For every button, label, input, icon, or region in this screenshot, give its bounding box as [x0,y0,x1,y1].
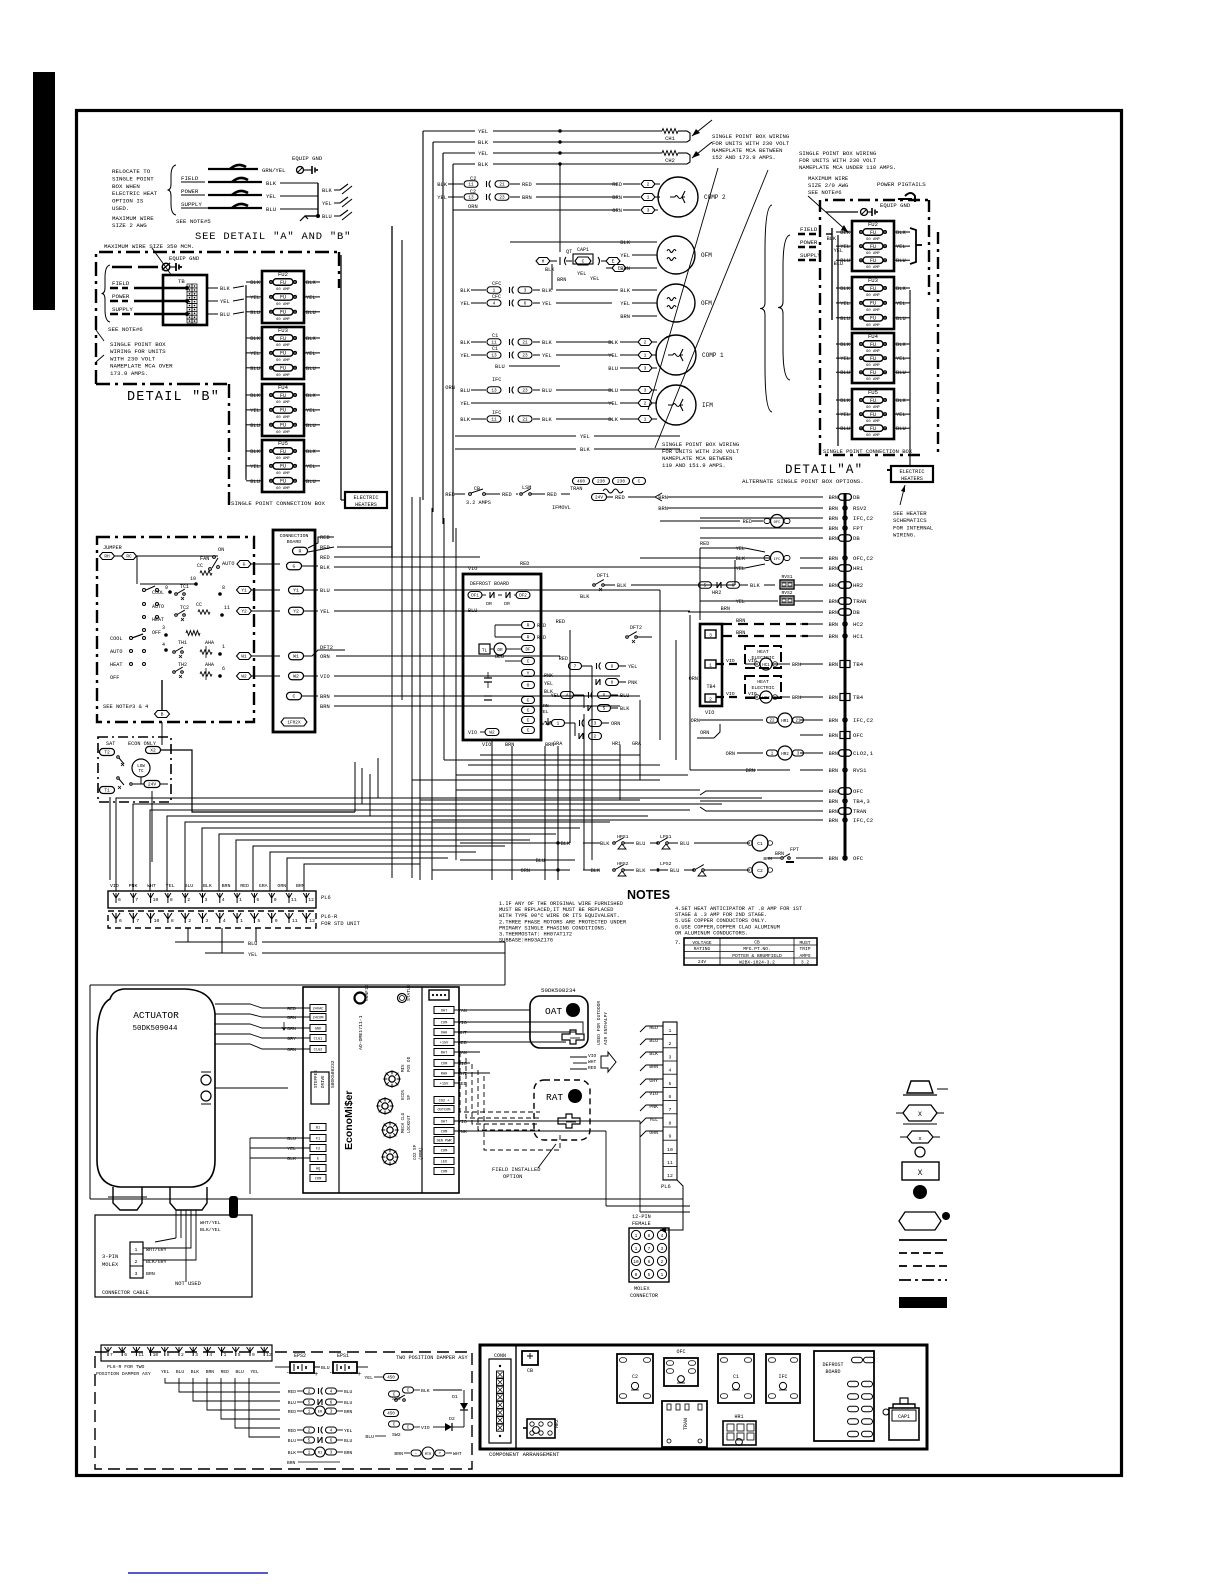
svg-text:SP: SP [408,1094,412,1100]
svg-text:RED: RED [700,541,709,547]
svg-text:CO2 SP: CO2 SP [414,1144,418,1160]
svg-text:BLK: BLK [266,180,277,187]
bus terminal DB y497 [839,494,852,501]
svg-text:RED: RED [221,1369,230,1375]
svg-text:LPS2: LPS2 [660,861,672,867]
svg-text:D2: D2 [449,1416,455,1422]
svg-text:4: 4 [222,897,225,903]
legend rect with X [902,1162,939,1180]
svg-text:AMPS: AMPS [799,953,810,959]
detail B dashed enclosure [96,252,339,384]
svg-text:W1: W1 [241,655,247,660]
svg-text:11: 11 [468,183,474,188]
svg-text:9: 9 [669,1134,672,1140]
vertical riser group A [391,557,393,878]
svg-text:VIO: VIO [421,1425,430,1431]
QT CAP1 row [536,258,550,265]
svg-text:5: 5 [257,918,260,924]
svg-text:NOT USED: NOT USED [175,1281,201,1287]
svg-text:COM: COM [441,1131,447,1135]
svg-text:Y2: Y2 [293,609,299,615]
svg-text:YEL: YEL [840,244,850,250]
svg-text:BRN: BRN [658,506,668,512]
svg-text:RED: RED [547,492,557,498]
svg-text:+: + [314,1371,318,1379]
svg-text:VIO: VIO [588,1053,597,1059]
svg-text:9: 9 [252,1352,255,1358]
svg-text:BLU: BLU [248,941,257,947]
circle IFC [771,552,784,565]
svg-text:BLU: BLU [250,310,260,316]
svg-text:BRN: BRN [829,818,838,824]
svg-text:VIO: VIO [748,658,757,664]
fuse block FU3 left [262,327,304,379]
svg-text:MFG.PT.NO.: MFG.PT.NO. [743,946,771,952]
svg-text:RED: RED [743,519,752,525]
damper asy dashed box [95,1352,472,1469]
svg-text:4: 4 [162,642,165,648]
svg-text:STATUS: STATUS [406,984,412,1001]
svg-text:60 AMP: 60 AMP [276,431,290,435]
svg-text:BLK: BLK [306,280,316,286]
12pin to molex arrow [660,1180,683,1230]
svg-text:C1: C1 [733,1374,739,1380]
svg-text:SEE DETAIL "A" AND "B": SEE DETAIL "A" AND "B" [195,231,351,243]
svg-text:C1: C1 [492,346,498,352]
svg-text:FEMALE: FEMALE [632,1221,651,1227]
svg-text:21: 21 [499,183,505,188]
svg-text:SUPPLY: SUPPLY [800,252,821,259]
svg-text:+: + [439,1452,442,1457]
svg-text:ORN: ORN [287,1047,296,1053]
svg-text:1: 1 [669,1028,672,1034]
svg-text:24VAC: 24VAC [313,1008,324,1012]
svg-text:FU: FU [280,479,286,485]
svg-text:POS DD: POS DD [408,1056,412,1072]
svg-text:VIO: VIO [705,710,714,716]
svg-text:YEL: YEL [161,1369,170,1375]
svg-text:9: 9 [635,1273,638,1278]
wire power yel [208,194,262,196]
oat sensor wires [470,1009,530,1011]
dashed vertical bundle rat [484,1076,560,1150]
bus terminal IFC,C2 y720 [843,718,847,722]
svg-text:60 AMP: 60 AMP [276,487,290,491]
svg-text:COM: COM [441,1150,447,1154]
svg-text:BLK: BLK [561,841,571,847]
pl6 lower frame wires [90,984,505,986]
wires conn board to right [337,556,480,558]
svg-text:BLK: BLK [191,1369,200,1375]
svg-text:6: 6 [118,897,121,903]
svg-text:BLK: BLK [460,417,470,423]
svg-text:BLU: BLU [266,206,276,213]
wires into TB [134,287,187,290]
svg-text:OAH: OAH [441,1032,447,1036]
svg-text:SW2: SW2 [392,1432,401,1438]
svg-text:ORN: ORN [445,385,455,391]
svg-text:ORN: ORN [320,654,330,660]
svg-text:W1: W1 [293,654,299,660]
svg-text:NAMEPLATE MCA BETWEEN: NAMEPLATE MCA BETWEEN [662,455,733,462]
svg-text:HEAT: HEAT [757,679,769,685]
svg-text:RED: RED [288,1428,297,1434]
svg-text:3.THERMOSTAT: HH07AT172: 3.THERMOSTAT: HH07AT172 [499,932,572,938]
svg-text:2: 2 [644,401,647,407]
svg-text:3: 3 [647,208,650,214]
RAT sensor dashed box [534,1080,590,1140]
svg-text:POWER: POWER [181,188,199,195]
RH RC terminals [100,553,115,560]
svg-text:FIELD: FIELD [112,280,130,287]
svg-text:BLU: BLU [536,858,545,864]
collector bracket right A [910,228,916,264]
row HC1 dashed heavy [722,635,808,637]
svg-text:TB4,3: TB4,3 [853,798,870,805]
svg-text:450: 450 [387,1377,395,1381]
svg-text:4.SET HEAT ANTICIPATOR AT .8 A: 4.SET HEAT ANTICIPATOR AT .8 AMP FOR 1ST [675,906,802,912]
svg-text:OFC: OFC [774,521,782,525]
svg-text:BLK: BLK [542,288,552,294]
svg-text:ELECTRIC: ELECTRIC [900,469,925,475]
svg-text:YEL: YEL [460,401,470,407]
svg-text:C1: C1 [492,333,498,339]
svg-text:CAP1: CAP1 [577,247,589,253]
svg-text:1: 1 [647,195,650,201]
bus terminal OFC,C2 y558 [843,556,847,560]
fuse block FU4 left [262,384,304,436]
svg-text:YEL: YEL [620,301,630,307]
cascade wire 7 [219,834,556,891]
cascade wire 10 [270,852,476,891]
svg-text:BRN: BRN [146,1271,155,1277]
cascade wire 8 [236,840,530,891]
svg-text:POWER: POWER [112,293,130,300]
svg-text:RED: RED [612,182,622,188]
svg-text:12-PIN: 12-PIN [632,1214,651,1220]
svg-text:BRN: BRN [746,768,755,774]
svg-text:X: X [918,1111,922,1118]
arrows to single point note [692,120,712,136]
svg-text:1: 1 [557,722,560,727]
svg-text:RC: RC [126,555,132,560]
svg-text:FU2: FU2 [868,221,878,228]
sat outputs down [109,797,111,880]
svg-text:21: 21 [522,418,528,423]
Y1 hex t [237,587,252,594]
svg-text:BRN: BRN [287,1015,296,1021]
svg-text:YEL: YEL [628,664,637,670]
svg-text:1F02X: 1F02X [287,721,301,726]
svg-text:DETAIL "B": DETAIL "B" [127,390,220,405]
svg-text:BLU: BLU [542,388,552,394]
svg-text:CC: CC [196,602,202,608]
svg-text:MECH CLG: MECH CLG [402,1112,406,1133]
svg-text:FOR STD UNIT: FOR STD UNIT [321,921,361,927]
svg-text:60 AMP: 60 AMP [276,344,290,348]
wire from x2 right [161,750,355,812]
svg-text:T2: T2 [104,750,110,756]
svg-text:HR2: HR2 [853,582,863,589]
svg-text:DB: DB [853,494,860,501]
svg-text:230: 230 [597,480,605,485]
svg-text:BLK: BLK [620,706,630,712]
heat electric box 1 [745,646,781,668]
bus terminal CLO2,1 y753 [839,750,852,757]
svg-text:G: G [293,564,296,570]
svg-text:450: 450 [387,1413,395,1417]
svg-text:YEL: YEL [306,351,316,357]
long bottom wires economiser [90,1198,683,1200]
resistor CH2 [662,151,678,156]
svg-text:EQUIP GND: EQUIP GND [292,155,323,162]
svg-text:BRN: BRN [829,506,838,512]
svg-text:JUMPER: JUMPER [103,545,122,551]
wire field blk [208,181,262,183]
svg-text:BRN: BRN [829,583,838,589]
svg-text:WHT/YEL: WHT/YEL [200,1220,221,1226]
wire blk top4 [453,163,475,165]
svg-text:YEL: YEL [736,566,745,572]
svg-text:DR: DR [486,601,492,607]
svg-text:YEL: YEL [542,301,552,307]
svg-text:COM: COM [441,1063,447,1067]
svg-text:7: 7 [648,1247,651,1252]
svg-text:11: 11 [491,341,497,346]
cap row 7-9-8 [569,663,582,670]
terminal G [287,562,302,570]
dft1 dft2 stadiums [468,592,482,599]
svg-text:8: 8 [167,1352,170,1358]
svg-text:BLK: BLK [203,883,212,889]
molex connector grid [629,1228,669,1282]
svg-text:YEL: YEL [250,351,260,357]
actuator to economiser wires [215,1004,288,1008]
svg-text:R: R [527,623,530,629]
svg-text:OFF: OFF [110,675,119,681]
svg-text:8: 8 [648,1234,651,1239]
svg-text:WHT: WHT [453,1451,462,1457]
svg-text:LOCKOUT: LOCKOUT [408,1115,412,1133]
svg-text:11: 11 [224,605,230,611]
rat dashed wires [460,1052,540,1112]
bracket wires lower brn [700,791,808,795]
svg-text:BRN: BRN [792,695,801,701]
bus terminal TRAN y601 [839,598,852,605]
svg-text:FU: FU [280,408,286,414]
svg-text:ER: ER [318,1411,323,1415]
left terminals lower group [310,1124,326,1131]
svg-text:BLU: BLU [288,1400,297,1406]
big brace 1 [760,205,772,412]
svg-text:BLK: BLK [580,594,590,600]
svg-text:BLK: BLK [896,342,906,348]
legend hex x large [903,1105,937,1121]
svg-text:YEL: YEL [840,301,850,307]
CAP1 component [889,1408,919,1440]
svg-text:7: 7 [574,665,577,670]
svg-text:SEN PWR: SEN PWR [436,1140,452,1144]
svg-text:BRN: BRN [612,195,622,201]
svg-text:3: 3 [135,1271,138,1277]
svg-text:COOL: COOL [110,636,122,642]
svg-text:FU2: FU2 [278,271,288,278]
svg-text:10: 10 [154,918,160,924]
svg-text:DRIVE: DRIVE [322,1075,326,1088]
svg-text:YEL: YEL [306,295,316,301]
svg-text:BRN: BRN [394,1451,403,1457]
resistor CH1 [662,129,678,134]
contactor row orn [453,209,618,211]
svg-text:ELECTRIC: ELECTRIC [751,685,774,691]
svg-text:FU: FU [870,316,876,322]
svg-text:BRN: BRN [320,694,330,700]
svg-text:BLU: BLU [322,214,332,220]
terminal block TB [163,275,207,325]
svg-text:13: 13 [491,354,497,359]
svg-text:USED FOR OUTDOOR: USED FOR OUTDOOR [596,1001,602,1045]
svg-text:60 AMP: 60 AMP [866,324,880,328]
svg-text:YEL: YEL [460,301,470,307]
svg-text:2: 2 [187,897,190,903]
wire from 24v down [160,783,168,785]
svg-text:1: 1 [644,353,647,359]
svg-text:5: 5 [648,1273,651,1278]
cascade wire 2 [133,804,722,891]
svg-text:BLK: BLK [306,336,316,342]
svg-text:YEL: YEL [580,434,590,440]
leader diagonal 2 [655,170,768,448]
svg-text:BLK: BLK [478,139,489,146]
svg-text:BRN: BRN [829,695,838,701]
svg-text:10: 10 [667,1147,673,1153]
svg-text:MTR: MTR [425,1453,432,1457]
right collector vertical A2 [909,290,911,441]
arrow feed wires [570,1056,587,1058]
svg-text:C: C [527,728,530,734]
svg-text:BLK: BLK [840,230,850,236]
svg-text:BRN: BRN [505,742,514,748]
svg-text:BLU: BLU [608,388,618,394]
svg-text:C: C [638,480,641,485]
svg-text:DF2: DF2 [519,595,527,599]
svg-text:PNK: PNK [628,680,638,686]
svg-text:BOX WHEN: BOX WHEN [112,183,140,190]
svg-text:BLU: BLU [184,883,193,889]
svg-text:RSV2: RSV2 [853,505,866,512]
svg-text:BLU: BLU [495,654,504,660]
svg-text:HPS2: HPS2 [617,861,629,867]
svg-text:BLK: BLK [306,449,316,455]
svg-text:60 AMP: 60 AMP [276,288,290,292]
cascade wire 12 [304,864,420,891]
svg-text:IFC: IFC [774,558,782,562]
svg-text:11: 11 [491,418,497,423]
svg-text:BLK: BLK [542,417,552,423]
svg-text:50DK509044: 50DK509044 [132,1025,178,1033]
svg-text:F1: F1 [316,1138,320,1142]
svg-text:60 AMP: 60 AMP [866,434,880,438]
svg-text:BRN: BRN [829,566,838,572]
svg-text:GRN/YEL: GRN/YEL [262,167,286,174]
svg-text:21: 21 [522,341,528,346]
svg-text:B1: B1 [316,1127,320,1131]
svg-text:WHT: WHT [147,883,156,889]
svg-text:BLK: BLK [460,288,470,294]
circle C2 coil [752,862,768,878]
svg-text:IFC: IFC [778,1374,787,1380]
svg-text:BLU: BLU [840,316,850,322]
svg-text:RED: RED [588,1065,597,1071]
svg-text:YEL: YEL [896,356,906,362]
svg-text:TAN: TAN [458,1050,467,1056]
svg-text:C: C [527,708,530,714]
circle OFC [771,515,784,528]
svg-text:BLU: BLU [306,479,316,485]
svg-text:GRY: GRY [287,1036,296,1042]
svg-text:VOLTAGE: VOLTAGE [692,940,712,946]
wire grn/yel pigtail [208,168,258,170]
svg-text:RED: RED [320,535,330,541]
svg-text:FU: FU [870,244,876,250]
svg-text:BLU: BLU [306,423,316,429]
svg-text:TB4: TB4 [853,661,864,668]
svg-text:EconoMi$er: EconoMi$er [343,1090,355,1150]
svg-text:21: 21 [795,720,801,724]
svg-text:10: 10 [633,1260,639,1265]
svg-text:BLU: BLU [287,1136,296,1142]
legend solid line [899,1239,947,1241]
svg-text:YEL: YEL [364,1375,373,1381]
svg-text:7: 7 [135,897,138,903]
HC1 circle [716,663,740,665]
svg-text:7.: 7. [675,940,681,946]
vertical riser group C defrost outputs [491,740,493,880]
svg-text:60 AMP: 60 AMP [866,238,880,242]
svg-text:OAT: OAT [441,1121,448,1125]
vertical riser group B [419,497,421,880]
svg-text:BLU: BLU [288,1438,297,1444]
bus terminal HC1 y636 [843,634,847,638]
bus terminal DB y612 [839,609,852,616]
svg-text:LED: LED [441,1161,447,1165]
svg-text:ON: ON [218,547,224,553]
svg-text:BLK/YEL: BLK/YEL [200,1227,221,1233]
big brace 2 [778,235,790,380]
damper cascade wires [165,1378,280,1383]
svg-text:OUTCOM: OUTCOM [438,1109,451,1113]
svg-text:BLU: BLU [670,868,679,874]
left fuse feeder verticals [245,285,247,478]
svg-text:IFC: IFC [492,377,501,383]
svg-text:+15V: +15V [440,1083,449,1087]
row HR2 contact [699,582,712,589]
svg-text:RED: RED [458,1040,467,1046]
thermostat dashed box [97,537,254,722]
wire blk top2 [433,141,475,143]
svg-text:YEL: YEL [896,301,906,307]
bus terminal OFC y858 [843,856,847,860]
svg-text:3: 3 [644,366,647,372]
svg-text:BLU: BLU [840,426,850,432]
stepper wire [215,1087,288,1089]
svg-text:OPTION IS: OPTION IS [112,198,144,205]
svg-text:IFC,C2: IFC,C2 [853,817,873,824]
actuator body [97,989,215,1187]
svg-text:ORN: ORN [277,883,286,889]
svg-text:HC1: HC1 [762,664,770,668]
svg-text:CB: CB [527,1368,533,1374]
